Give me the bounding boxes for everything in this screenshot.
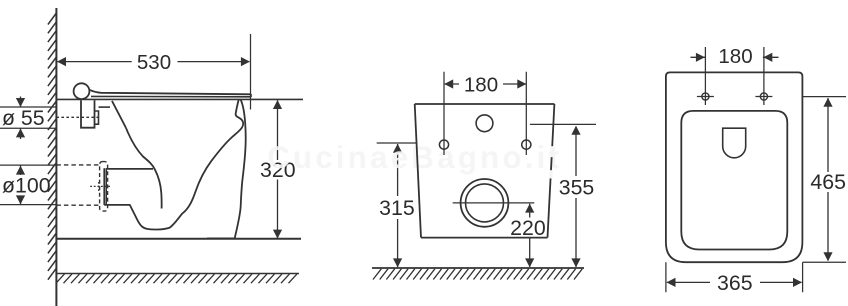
svg-text:ø100: ø100	[2, 174, 51, 198]
svg-text:465: 465	[810, 170, 846, 194]
svg-text:315: 315	[379, 196, 415, 220]
svg-text:220: 220	[510, 216, 546, 240]
svg-text:180: 180	[718, 45, 752, 68]
svg-text:CucinaeBagno.it: CucinaeBagno.it	[267, 139, 562, 175]
svg-text:180: 180	[464, 73, 498, 96]
svg-text:365: 365	[717, 271, 753, 295]
svg-text:ø 55: ø 55	[2, 106, 45, 130]
svg-text:355: 355	[559, 175, 595, 199]
svg-text:530: 530	[137, 51, 171, 74]
